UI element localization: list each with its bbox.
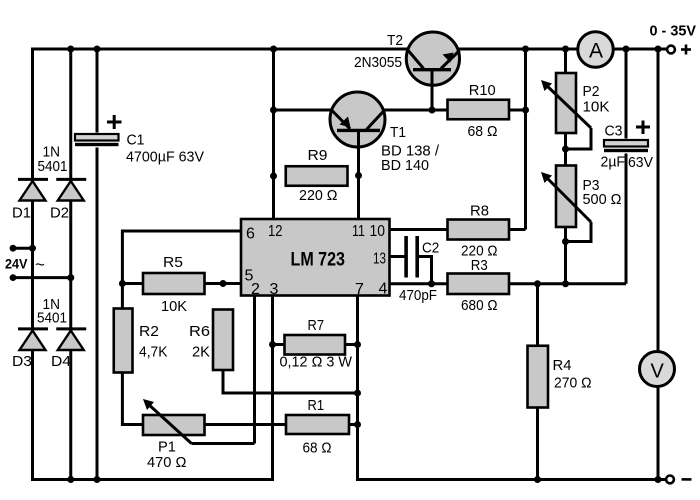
svg-text:C1: C1 bbox=[127, 132, 145, 149]
wire: C2 right lead bend bbox=[419, 257, 432, 284]
transistor T1 body bbox=[330, 92, 385, 147]
svg-text:4: 4 bbox=[379, 281, 388, 298]
svg-text:BD 140: BD 140 bbox=[381, 157, 429, 174]
wire: R8 right lead bbox=[509, 228, 526, 231]
resistor R1 bbox=[286, 415, 349, 434]
wire: R4 bottom lead bbox=[536, 408, 539, 480]
svg-text:LM 723: LM 723 bbox=[291, 250, 346, 271]
transistor T2 body bbox=[406, 32, 459, 85]
svg-text:68 Ω: 68 Ω bbox=[468, 123, 498, 140]
svg-text:R9: R9 bbox=[308, 147, 328, 164]
capacitor C2 right plate bbox=[415, 236, 419, 278]
junction: AC bottom on D2 wire bbox=[67, 274, 74, 281]
svg-text:5401: 5401 bbox=[37, 310, 67, 327]
svg-text:220 Ω: 220 Ω bbox=[299, 187, 338, 204]
capacitor C1 polarity plus bbox=[107, 115, 122, 129]
output minus sign bbox=[682, 478, 692, 481]
potentiometer P2 wiper arrowhead bbox=[541, 80, 552, 91]
junction: AC top on left wire bbox=[29, 245, 36, 252]
capacitor C3 polarity plus bbox=[636, 121, 650, 135]
svg-text:68 Ω: 68 Ω bbox=[303, 440, 332, 457]
svg-text:R10: R10 bbox=[469, 82, 496, 99]
potentiometer P2 body bbox=[556, 73, 576, 133]
wire: AC input bottom lead bbox=[13, 276, 71, 279]
svg-text:0,12 Ω 3 W: 0,12 Ω 3 W bbox=[280, 354, 353, 371]
junction: R4 top on output wire bbox=[534, 280, 541, 287]
potentiometer P2 wiper arm bbox=[545, 84, 591, 149]
junction: voltmeter bottom on ground rail bbox=[655, 476, 662, 483]
wire: P2-P3 link bbox=[564, 133, 567, 166]
svg-text:D1: D1 bbox=[12, 205, 31, 222]
potentiometer P3 wiper arrowhead bbox=[541, 172, 552, 183]
wire: R7 left lead bbox=[273, 343, 285, 346]
resistor R3 bbox=[448, 274, 510, 295]
wire: C3 branch vertical bbox=[625, 49, 628, 284]
svg-text:R6: R6 bbox=[189, 323, 210, 340]
junction: R9 right on pin11 line bbox=[355, 172, 362, 179]
output plus sign bbox=[681, 45, 691, 55]
resistor R2 bbox=[114, 309, 133, 373]
wire: pin 4 / R3 output wire bbox=[390, 282, 627, 285]
svg-text:R5: R5 bbox=[163, 254, 183, 271]
transistor T2 emitter arrowhead bbox=[443, 53, 454, 63]
capacitor C1 bottom plate bbox=[75, 143, 119, 146]
junction: R5 right bbox=[220, 280, 227, 287]
junction: R6 bend on pin7 line bbox=[354, 390, 361, 397]
junction: rail x=565.5 bbox=[562, 46, 569, 53]
transistor T1 collector diagonal bbox=[367, 110, 385, 129]
diode D1 bbox=[18, 179, 48, 200]
svg-text:5401: 5401 bbox=[38, 158, 68, 175]
svg-text:R3: R3 bbox=[471, 257, 488, 274]
wire: left vertical (D1/D3 branch) bbox=[31, 48, 34, 482]
wire: C1 vertical branch bbox=[96, 49, 99, 480]
transistor T2 base bar bbox=[413, 68, 451, 71]
svg-text:R1: R1 bbox=[308, 397, 325, 414]
svg-text:~: ~ bbox=[35, 255, 45, 274]
junction: D2 wire bottom bbox=[67, 476, 74, 483]
junction: R1 right on pin7 line bbox=[354, 421, 361, 428]
diode D4 bbox=[56, 329, 86, 350]
junction: P3 wiper tap bbox=[562, 238, 569, 245]
wire: pin 7 vertical bbox=[356, 296, 359, 482]
junction: rail x=97 bbox=[94, 46, 101, 53]
wire: AC input top lead bbox=[13, 247, 33, 250]
junction: R7 right on pin7 line bbox=[354, 341, 361, 348]
resistor R4 bbox=[528, 346, 549, 408]
resistor R7 bbox=[285, 335, 346, 355]
junction: R4 bottom on ground rail bbox=[534, 476, 541, 483]
svg-text:P2: P2 bbox=[583, 83, 600, 100]
wire: pin 13 lead to C2 bbox=[390, 255, 405, 258]
wire: bottom right ground rail bbox=[356, 478, 667, 481]
svg-text:500 Ω: 500 Ω bbox=[583, 191, 622, 208]
svg-text:10K: 10K bbox=[583, 99, 610, 116]
diode D2 bbox=[56, 179, 86, 200]
transistor T1 emitter diagonal bbox=[332, 110, 351, 129]
svg-text:11: 11 bbox=[352, 223, 365, 240]
junction: rail x=273.5 bbox=[270, 46, 277, 53]
wire: voltmeter branch vertical bbox=[657, 49, 660, 480]
diode D3 bbox=[18, 329, 48, 350]
junction: rail x=658 bbox=[655, 46, 662, 53]
terminal: output plus bbox=[667, 46, 675, 54]
junction: R5 left bbox=[119, 280, 126, 287]
wire: R10 right lead bbox=[509, 109, 526, 112]
transistor T1 emitter arrowhead bbox=[340, 117, 351, 128]
svg-text:470pF: 470pF bbox=[399, 287, 437, 304]
junction: C1 wire bottom bbox=[94, 476, 101, 483]
wire: R4 top lead bbox=[536, 284, 539, 346]
terminal: output minus bbox=[666, 476, 674, 484]
svg-text:0 - 35V: 0 - 35V bbox=[650, 23, 697, 40]
potentiometer P3 wiper arm bbox=[545, 176, 591, 242]
wire: R7 right lead bbox=[345, 343, 358, 346]
svg-text:13: 13 bbox=[373, 251, 386, 268]
junction: C2 bend on pin4 wire bbox=[428, 280, 435, 287]
svg-text:6: 6 bbox=[246, 226, 255, 243]
svg-text:V: V bbox=[651, 361, 665, 383]
junction: R7 left on pin3 line bbox=[269, 341, 276, 348]
IC U1 LM723 body bbox=[241, 219, 390, 296]
svg-text:D4: D4 bbox=[51, 353, 71, 370]
junction: rail x=525.5 bbox=[522, 46, 529, 53]
ammeter A bbox=[578, 32, 614, 68]
svg-text:D2: D2 bbox=[50, 205, 69, 222]
wire: R6 bottom bend to pin7 line bbox=[223, 370, 358, 393]
wire: R2 bottom bend to P1 bbox=[122, 373, 143, 425]
wire: pin 12 vertical from rail bbox=[272, 49, 275, 219]
terminal: AC input top bbox=[10, 245, 17, 252]
junction: T1 wire on pin12 line bbox=[270, 107, 277, 114]
svg-text:270 Ω: 270 Ω bbox=[554, 375, 592, 392]
wire: R5 right lead to pin 5 bbox=[205, 282, 242, 285]
svg-text:R4: R4 bbox=[553, 357, 572, 374]
svg-text:A: A bbox=[589, 40, 603, 63]
resistor R10 bbox=[448, 100, 510, 120]
svg-text:4,7K: 4,7K bbox=[139, 344, 168, 361]
wire: pin 10 lead to R8 bbox=[390, 228, 448, 231]
transistor T1 base lead down to pin 11 bbox=[357, 130, 360, 219]
junction: R9 left bbox=[270, 173, 277, 180]
svg-text:470 Ω: 470 Ω bbox=[147, 454, 187, 471]
svg-text:C3: C3 bbox=[605, 123, 623, 140]
wire: pin 3 vertical bbox=[271, 296, 274, 482]
wire: top positive rail bbox=[31, 48, 667, 51]
terminal: AC input bottom bbox=[10, 274, 17, 281]
svg-text:63V: 63V bbox=[628, 154, 653, 171]
svg-text:2: 2 bbox=[251, 281, 260, 298]
svg-text:R8: R8 bbox=[470, 203, 489, 220]
potentiometer P1 body bbox=[143, 415, 205, 435]
wire: bottom left ground rail bbox=[31, 478, 274, 481]
wire: P1 to R1 horizontal bbox=[205, 423, 287, 426]
wire: R1 right lead bbox=[349, 423, 358, 426]
wire: D2/D4 vertical branch bbox=[69, 49, 72, 480]
svg-text:P1: P1 bbox=[158, 439, 176, 456]
junction: P3 chain on output wire bbox=[562, 280, 569, 287]
svg-text:C2: C2 bbox=[422, 239, 439, 256]
resistor R8 bbox=[448, 220, 510, 240]
resistor R5 bbox=[143, 273, 205, 294]
wire: pin 2 vertical to P1 wiper bbox=[253, 296, 256, 444]
wire: P3 bottom lead bbox=[564, 227, 567, 285]
wire: vertical x=525.5 rail to R8 bbox=[524, 49, 527, 230]
capacitor C3 top plate bbox=[604, 140, 648, 147]
svg-text:D3: D3 bbox=[12, 353, 32, 370]
junction: P2 wiper tap bbox=[562, 146, 569, 153]
transistor T1 base bar bbox=[337, 129, 380, 132]
wire: R5 left lead bbox=[122, 282, 143, 285]
svg-text:12: 12 bbox=[268, 223, 283, 240]
junction: rail x=626 bbox=[623, 46, 630, 53]
resistor R6 bbox=[213, 310, 233, 371]
svg-text:T2: T2 bbox=[387, 32, 403, 49]
wire: T1 emitter-collector horizontal bbox=[274, 109, 448, 112]
svg-text:3: 3 bbox=[270, 281, 279, 298]
capacitor C1 gap mask bbox=[74, 133, 120, 148]
wire: P1 wiper horizontal bbox=[192, 442, 255, 445]
svg-text:24V: 24V bbox=[5, 256, 28, 272]
transistor T2 base lead down bbox=[431, 70, 434, 110]
svg-text:2µF: 2µF bbox=[601, 154, 626, 171]
svg-text:10: 10 bbox=[370, 223, 386, 240]
resistor R9 bbox=[286, 166, 348, 186]
potentiometer P1 wiper arrowhead bbox=[143, 399, 154, 410]
transistor T2 emitter diagonal bbox=[441, 51, 460, 69]
svg-text:680 Ω: 680 Ω bbox=[461, 297, 498, 314]
svg-text:2N3055: 2N3055 bbox=[354, 54, 402, 71]
svg-text:R2: R2 bbox=[139, 323, 159, 340]
svg-text:7: 7 bbox=[355, 281, 364, 298]
wire: pin 6 loop left bbox=[122, 231, 241, 309]
potentiometer P1 wiper arm bbox=[147, 403, 192, 444]
junction: T2 base / R10 left bbox=[429, 107, 436, 114]
capacitor C3 gap mask bbox=[603, 139, 649, 154]
svg-text:R7: R7 bbox=[308, 317, 325, 334]
svg-text:4700µF 63V: 4700µF 63V bbox=[126, 149, 204, 166]
svg-text:2K: 2K bbox=[192, 344, 210, 361]
capacitor C3 bottom plate bbox=[604, 149, 648, 152]
capacitor C1 top plate bbox=[75, 134, 119, 141]
voltmeter V bbox=[640, 352, 675, 387]
potentiometer P3 body bbox=[556, 166, 576, 228]
svg-text:10K: 10K bbox=[161, 298, 187, 315]
transistor T2 collector diagonal bbox=[408, 50, 424, 69]
junction: R10 right bbox=[522, 107, 529, 114]
capacitor C2 left plate bbox=[404, 236, 408, 278]
junction: rail x=70.75 bbox=[67, 46, 74, 53]
svg-text:T1: T1 bbox=[390, 124, 406, 141]
wire: P2 top lead bbox=[564, 49, 567, 73]
